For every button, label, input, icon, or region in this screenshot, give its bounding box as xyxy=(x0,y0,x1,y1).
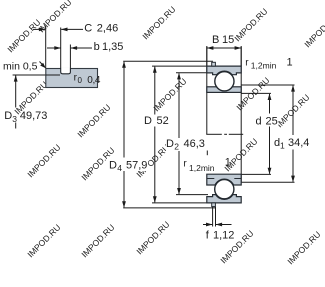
dimension C line right leader xyxy=(61,28,83,30)
dimension C extension line (ring face) xyxy=(45,26,47,69)
svg-text:IMPOD.RU: IMPOD.RU xyxy=(302,12,325,49)
f extension line left xyxy=(212,207,214,227)
svg-text:34,4: 34,4 xyxy=(288,137,309,149)
D2 dimension line xyxy=(178,73,180,194)
svg-text:C: C xyxy=(84,22,92,34)
svg-text:2,46: 2,46 xyxy=(97,22,118,34)
groove detail cross-section xyxy=(46,68,98,88)
d1 extension line top xyxy=(241,84,294,86)
svg-text:1: 1 xyxy=(287,56,293,68)
svg-text:IMPOD.RU: IMPOD.RU xyxy=(134,219,171,256)
D3 dimension horizontal line xyxy=(13,74,61,76)
svg-text:52: 52 xyxy=(157,115,169,127)
d extension line top xyxy=(241,92,271,94)
D4 dimension line xyxy=(123,62,125,208)
svg-text:2: 2 xyxy=(174,142,179,152)
svg-text:25: 25 xyxy=(266,116,278,128)
d1 extension line bottom xyxy=(241,181,294,183)
D extension line bottom xyxy=(152,202,207,204)
B extension left face top xyxy=(206,46,208,66)
D2 extension line top xyxy=(176,72,207,74)
svg-text:D: D xyxy=(144,115,152,127)
svg-text:B: B xyxy=(212,34,219,46)
inner ring upper band xyxy=(207,87,241,93)
svg-text:15: 15 xyxy=(222,34,234,46)
svg-text:1,2min: 1,2min xyxy=(251,60,277,70)
svg-text:d: d xyxy=(256,116,262,128)
svg-text:46,3: 46,3 xyxy=(184,138,205,150)
svg-text:D: D xyxy=(109,160,117,172)
svg-text:0,4: 0,4 xyxy=(87,75,101,86)
D3 dimension vertical line xyxy=(15,76,17,108)
dimension b arrowheads xyxy=(54,46,61,50)
svg-text:IMPOD.RU: IMPOD.RU xyxy=(232,6,269,43)
dimension B line xyxy=(207,47,241,49)
dimension b line right leader xyxy=(71,47,92,49)
outer ring upper xyxy=(207,66,241,75)
svg-text:IMPOD.RU: IMPOD.RU xyxy=(5,17,42,54)
svg-text:0: 0 xyxy=(78,76,83,85)
dimension d1 arrowheads xyxy=(291,85,295,92)
D2 extension line bottom xyxy=(176,194,208,196)
svg-text:1,12: 1,12 xyxy=(213,230,234,242)
f dimension line left xyxy=(203,224,212,226)
D dimension line xyxy=(154,67,156,203)
dimension b line left xyxy=(47,47,60,49)
min 0,5 leader arrowhead xyxy=(40,63,46,69)
B extension right face top xyxy=(240,46,242,66)
svg-text:IMPOD.RU: IMPOD.RU xyxy=(285,229,322,266)
svg-text:IMPOD.RU: IMPOD.RU xyxy=(79,222,116,259)
f dimension line right leader xyxy=(216,224,232,226)
svg-text:3: 3 xyxy=(12,114,17,124)
f extension line right xyxy=(215,207,217,227)
svg-text:1: 1 xyxy=(280,141,285,151)
left face hidden dash xyxy=(206,151,208,156)
left face line upper through bore xyxy=(206,46,208,134)
snap ring tab lower xyxy=(212,203,216,207)
svg-text:min 0,5: min 0,5 xyxy=(3,61,38,73)
min 0,5 leader line xyxy=(40,62,45,68)
D3 line over section xyxy=(46,74,60,76)
snap ring groove slot xyxy=(61,68,71,74)
dimension d arrowheads xyxy=(268,93,272,100)
svg-text:57,9: 57,9 xyxy=(126,160,147,172)
ring section rect xyxy=(46,69,98,88)
svg-text:1,2min: 1,2min xyxy=(189,163,215,173)
svg-text:4: 4 xyxy=(117,163,122,173)
D4 extension line bottom (under snap ring) xyxy=(123,207,215,209)
dimension C arrowheads xyxy=(39,28,46,32)
ball lower xyxy=(215,180,234,199)
dimension B arrowheads xyxy=(207,46,214,50)
dimension f arrowheads xyxy=(206,223,213,227)
snap ring tab upper xyxy=(212,62,216,66)
d extension line bottom xyxy=(241,173,271,175)
svg-text:D: D xyxy=(4,110,12,122)
D3 dimension stub below label xyxy=(15,123,17,129)
dimension C line left xyxy=(33,28,45,30)
svg-text:1,35: 1,35 xyxy=(102,41,123,53)
arrowheads xyxy=(14,28,295,227)
svg-text:r: r xyxy=(245,58,249,69)
svg-text:D: D xyxy=(166,138,174,150)
dimension D2 arrowheads xyxy=(177,73,181,80)
svg-text:IMPOD.RU: IMPOD.RU xyxy=(140,4,177,41)
groove slot left wall extension xyxy=(60,28,62,69)
dimension D3 arrowhead xyxy=(14,75,18,82)
right face line through bore xyxy=(240,46,242,182)
d dimension line xyxy=(269,94,271,174)
inner ring lower recess steps xyxy=(207,178,215,180)
outer ring lower xyxy=(207,195,241,203)
svg-text:IMPOD.RU: IMPOD.RU xyxy=(75,102,112,139)
svg-text:1: 1 xyxy=(225,156,231,168)
svg-text:49,73: 49,73 xyxy=(20,110,48,122)
D4 extension line top (over snap ring) xyxy=(123,60,213,62)
centerline (axis) dash-dot xyxy=(206,133,243,135)
label backgrounds xyxy=(107,114,310,173)
svg-text:IMPOD.RU: IMPOD.RU xyxy=(25,142,62,179)
groove slot right wall extension xyxy=(69,45,71,69)
dimension D arrowheads xyxy=(153,66,157,73)
bearing cross-section xyxy=(207,62,241,206)
ball upper xyxy=(215,72,234,91)
svg-text:IMPOD.RU: IMPOD.RU xyxy=(25,222,62,259)
d1 dimension line xyxy=(292,86,294,182)
svg-text:b: b xyxy=(94,41,100,53)
dimension D4 arrowheads xyxy=(122,61,126,68)
svg-text:f: f xyxy=(206,230,210,242)
D extension line top xyxy=(152,65,207,67)
svg-text:IMPOD.RU: IMPOD.RU xyxy=(151,76,188,113)
inner ring lower with shoulders xyxy=(207,174,241,185)
